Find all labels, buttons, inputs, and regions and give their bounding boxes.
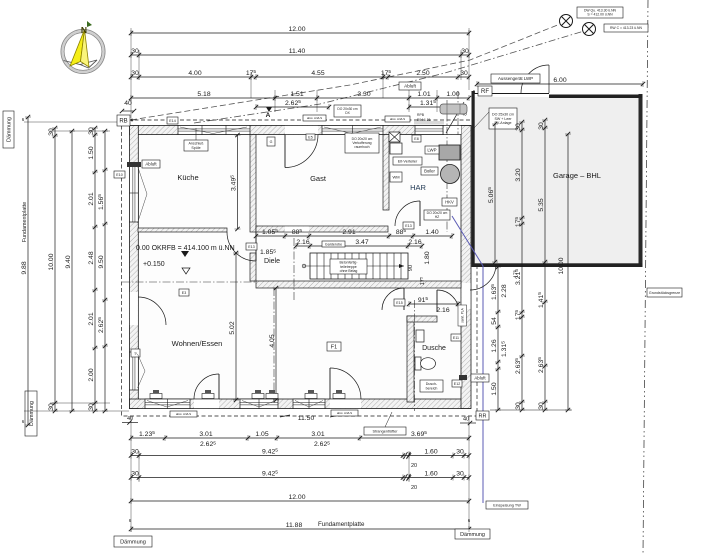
svg-text:Küche: Küche xyxy=(177,173,198,182)
garage wall right xyxy=(639,94,643,267)
label E5 xyxy=(306,134,315,140)
svg-text:30: 30 xyxy=(48,403,55,411)
svg-text:2.16: 2.16 xyxy=(408,239,421,246)
label RF xyxy=(478,86,492,96)
svg-text:30: 30 xyxy=(515,123,522,131)
label Strangentlueftfer xyxy=(364,427,406,435)
window kitchen top xyxy=(178,126,250,135)
svg-text:DX: DX xyxy=(345,111,350,115)
insulation dashed outline xyxy=(122,120,478,416)
dim row 5.18/3.30 xyxy=(129,91,471,101)
svg-text:2.50: 2.50 xyxy=(416,70,429,77)
door Kueche xyxy=(227,232,256,261)
svg-text:1.60: 1.60 xyxy=(424,448,437,455)
svg-text:Dämmung: Dämmung xyxy=(7,117,13,142)
svg-text:Garage – BHL: Garage – BHL xyxy=(553,171,601,180)
dim 10.00 garage xyxy=(565,132,571,412)
svg-text:Einspeisung TW: Einspeisung TW xyxy=(493,503,521,507)
svg-text:Dämmung: Dämmung xyxy=(460,532,485,538)
dim stairs 3.47 xyxy=(294,239,424,249)
svg-text:Wohnen/Essen: Wohnen/Essen xyxy=(172,339,223,348)
dim 10.00 left xyxy=(48,126,58,413)
wall Gast/HAR xyxy=(383,135,389,211)
dim 1.31 xyxy=(407,99,448,110)
svg-text:2.48: 2.48 xyxy=(88,251,95,264)
svg-text:Garderobe: Garderobe xyxy=(325,242,342,246)
door opening bottom 2 xyxy=(330,399,361,408)
door opening house entrance xyxy=(444,126,461,134)
door Dusche xyxy=(437,290,459,312)
label Abluft bath xyxy=(471,374,489,382)
svg-text:0.00 OKRFB = 414.100 m ü.NN: 0.00 OKRFB = 414.100 m ü.NN xyxy=(136,245,235,252)
svg-text:2.01: 2.01 xyxy=(88,312,95,325)
svg-text:Fundamentplatte: Fundamentplatte xyxy=(22,202,28,242)
label Verkofferung xyxy=(345,133,379,153)
label E8 xyxy=(412,135,421,142)
label E13 xyxy=(246,243,257,250)
wall Kueche bottom xyxy=(138,228,227,232)
shaft with X symbol xyxy=(389,132,400,142)
svg-text:+0.150: +0.150 xyxy=(143,261,165,268)
svg-text:20: 20 xyxy=(411,463,417,469)
svg-text:3.01: 3.01 xyxy=(311,431,324,438)
svg-text:E11: E11 xyxy=(453,336,459,340)
svg-text:abst. A/2LS: abst. A/2LS xyxy=(176,412,191,416)
svg-text:30: 30 xyxy=(461,48,469,55)
svg-text:RF: RF xyxy=(481,89,489,95)
svg-text:E12: E12 xyxy=(454,382,460,386)
svg-text:PV-Anlage: PV-Anlage xyxy=(495,121,512,125)
svg-text:30: 30 xyxy=(48,128,55,136)
svg-text:2.28: 2.28 xyxy=(501,284,508,297)
entry sill bar xyxy=(414,121,444,125)
extension lines top xyxy=(131,28,469,118)
svg-text:2.16: 2.16 xyxy=(296,239,309,246)
svg-text:3.47: 3.47 xyxy=(355,239,368,246)
svg-text:S = 412.00 ü.NN: S = 412.00 ü.NN xyxy=(587,13,613,17)
svg-text:1.26: 1.26 xyxy=(491,339,498,352)
svg-text:1.01: 1.01 xyxy=(417,91,430,98)
svg-text:1.51: 1.51 xyxy=(290,91,303,98)
label E12 xyxy=(452,380,462,387)
svg-text:5.35: 5.35 xyxy=(538,198,545,211)
svg-text:RPB: RPB xyxy=(417,113,425,117)
svg-text:2.00: 2.00 xyxy=(88,368,95,381)
svg-text:9: 9 xyxy=(135,351,137,355)
vent fixture right xyxy=(459,375,467,380)
water feed Einspeisung TW line xyxy=(452,216,483,503)
stairs xyxy=(302,253,408,279)
wall below stairs xyxy=(256,281,461,288)
label abst A2LS top2 xyxy=(385,116,410,122)
Abluft roof vent label xyxy=(399,82,421,90)
svg-text:2.01: 2.01 xyxy=(88,192,95,205)
svg-text:Dämmung: Dämmung xyxy=(120,540,146,546)
property boundary Grundstuecksgrenze xyxy=(643,0,648,555)
dim 9.88 fundament left xyxy=(21,115,31,427)
dim chain right wall xyxy=(490,265,501,412)
label abst A2LS bottom2 xyxy=(331,410,358,416)
garage door swing arc xyxy=(521,65,549,93)
label 9 xyxy=(131,349,140,357)
label E15 xyxy=(394,299,405,306)
entrance door leaf xyxy=(446,102,464,133)
label DO 20x30 DX xyxy=(334,105,361,117)
svg-text:E3: E3 xyxy=(182,291,186,295)
svg-text:10.00: 10.00 xyxy=(558,257,565,274)
dim F1 4.05 xyxy=(269,286,279,402)
label E10 xyxy=(114,171,125,178)
baseline right dims xyxy=(490,409,572,411)
svg-text:3.30: 3.30 xyxy=(357,91,370,98)
svg-text:30: 30 xyxy=(538,122,545,130)
label abst A2LS top1 xyxy=(303,115,326,121)
label abst A2LS bottom1 xyxy=(170,411,197,417)
vent fixture left xyxy=(127,162,141,167)
door bottom left terrace xyxy=(194,374,219,399)
svg-text:5.02: 5.02 xyxy=(229,321,236,334)
svg-text:Strangentlüfter: Strangentlüfter xyxy=(373,429,399,433)
svg-text:40: 40 xyxy=(127,416,133,422)
heat pump unit LWP xyxy=(439,145,460,160)
svg-text:30: 30 xyxy=(131,70,139,77)
window bottom 3 xyxy=(293,399,325,409)
window sill fixtures bottom xyxy=(150,394,162,399)
svg-text:Abluft: Abluft xyxy=(404,84,416,89)
label Duschbereich xyxy=(420,380,443,392)
svg-text:E8: E8 xyxy=(414,137,418,141)
svg-text:sanit. PLA: sanit. PLA xyxy=(461,307,465,322)
dim 6.00 garage xyxy=(475,77,645,87)
label Einspeisung TW xyxy=(486,501,528,509)
svg-text:2.91: 2.91 xyxy=(342,229,355,236)
svg-text:40: 40 xyxy=(463,417,469,423)
window kitchen left xyxy=(130,164,139,222)
garage wall bottom xyxy=(472,263,643,267)
wall Diele stub xyxy=(250,253,256,281)
svg-text:20: 20 xyxy=(411,485,417,491)
label sanit PLA xyxy=(458,305,467,326)
dim chain garage mid xyxy=(514,120,525,412)
svg-text:A: A xyxy=(266,112,271,119)
svg-text:Fundamentplatte: Fundamentplatte xyxy=(318,521,365,528)
svg-text:30: 30 xyxy=(456,448,464,455)
svg-text:30: 30 xyxy=(131,448,139,455)
dim 2.62 xyxy=(254,99,331,110)
door F1 xyxy=(382,288,404,310)
label DW Qu levels xyxy=(577,7,623,18)
svg-text:RR: RR xyxy=(479,413,487,419)
svg-text:Diele: Diele xyxy=(264,258,280,265)
dim Dusche 91.5 xyxy=(407,296,460,307)
dim 5.06 garage left xyxy=(487,122,498,264)
svg-text:Dämmung: Dämmung xyxy=(29,401,35,426)
door opening top Gast xyxy=(285,126,318,134)
svg-text:30: 30 xyxy=(515,402,522,410)
window bottom 1 xyxy=(145,399,190,409)
svg-text:E13: E13 xyxy=(248,245,254,249)
svg-text:30: 30 xyxy=(460,70,468,77)
label Garderobe xyxy=(322,241,345,247)
dim chain left inner xyxy=(88,126,98,413)
svg-text:30: 30 xyxy=(456,470,464,477)
insulation layer dashes in walls xyxy=(130,127,470,129)
svg-text:9.88: 9.88 xyxy=(21,261,28,274)
dim row 9.42 a xyxy=(129,448,471,459)
svg-text:11.40: 11.40 xyxy=(289,48,306,55)
svg-text:Aussengerät LWP: Aussengerät LWP xyxy=(498,76,533,81)
door right wall exterior xyxy=(470,264,496,290)
drain line start dot xyxy=(131,119,134,122)
svg-text:6.00: 6.00 xyxy=(553,77,566,84)
label Anschluss Spuele xyxy=(184,140,208,151)
svg-text:abst. A/2LS: abst. A/2LS xyxy=(390,117,405,121)
svg-text:11.88: 11.88 xyxy=(286,522,303,529)
door opening left Wohnen xyxy=(130,292,138,325)
label G xyxy=(267,137,275,146)
svg-text:E15: E15 xyxy=(396,301,402,305)
svg-text:abst. A/2LS: abst. A/2LS xyxy=(307,116,322,120)
svg-text:HZ: HZ xyxy=(435,215,440,219)
svg-text:LWP: LWP xyxy=(427,148,436,153)
svg-text:Gast: Gast xyxy=(310,174,327,183)
svg-text:1.50: 1.50 xyxy=(491,382,498,395)
svg-text:F1: F1 xyxy=(331,344,337,350)
svg-text:G: G xyxy=(270,140,273,144)
svg-text:Dusche: Dusche xyxy=(422,345,446,352)
svg-text:90: 90 xyxy=(408,265,414,271)
manhole DW C xyxy=(583,23,596,36)
svg-text:N: N xyxy=(81,25,87,35)
stairs label xyxy=(330,259,367,274)
door Gast top xyxy=(285,135,318,168)
svg-text:4.05: 4.05 xyxy=(269,334,276,347)
window bottom 2 xyxy=(240,399,278,409)
svg-text:4.00: 4.00 xyxy=(188,70,201,77)
svg-text:Spüle: Spüle xyxy=(191,146,200,150)
svg-text:3.01: 3.01 xyxy=(199,431,212,438)
dim 40 wall thickness top-left xyxy=(120,100,136,113)
dim 12.00 bottom xyxy=(129,494,471,504)
label DO HZ xyxy=(424,210,450,220)
door opening Gast bottom left xyxy=(285,226,309,231)
label HKV xyxy=(442,198,457,206)
label E13 xyxy=(403,222,414,229)
door opening right wall xyxy=(461,283,470,309)
outer wall bottom xyxy=(130,399,471,409)
label RR xyxy=(476,411,489,420)
north compass xyxy=(61,30,105,74)
svg-text:30: 30 xyxy=(131,470,139,477)
svg-text:54: 54 xyxy=(491,317,498,325)
door HAR xyxy=(395,201,420,226)
window opening marks xyxy=(138,127,382,407)
washbasin xyxy=(416,330,424,342)
toilet xyxy=(415,357,436,370)
garage interior fill xyxy=(475,97,639,264)
garage wall top xyxy=(549,95,643,99)
dim 11.88 fundament xyxy=(129,522,471,532)
dim Wohnen 5.02 xyxy=(229,251,239,402)
svg-text:4.55: 4.55 xyxy=(311,70,324,77)
svg-text:1.40: 1.40 xyxy=(425,229,438,236)
label E14 xyxy=(167,117,178,124)
svg-text:12.00: 12.00 xyxy=(288,494,305,501)
door bottom right xyxy=(330,368,361,399)
svg-text:1.50: 1.50 xyxy=(88,146,95,159)
garage wall left xyxy=(472,91,475,267)
room label F1 xyxy=(327,342,341,351)
outer wall left xyxy=(130,126,139,409)
svg-text:bereich: bereich xyxy=(426,386,438,390)
svg-text:RB: RB xyxy=(119,119,127,125)
label Elt-Verteiler xyxy=(393,157,422,165)
extension lines left xyxy=(24,122,129,411)
drain line DW upper xyxy=(131,24,560,120)
svg-text:Elt-Verteiler: Elt-Verteiler xyxy=(398,159,418,163)
svg-text:9.40: 9.40 xyxy=(65,255,72,268)
label Aussengeraet LWP xyxy=(491,74,540,83)
door opening bottom 1 xyxy=(194,399,219,408)
cabinet xyxy=(390,143,402,154)
axis lines xyxy=(122,91,458,411)
svg-text:10.00: 10.00 xyxy=(48,253,55,270)
label LWP xyxy=(425,146,439,154)
svg-text:RW C = 413.23 ü.NN: RW C = 413.23 ü.NN xyxy=(610,26,642,30)
svg-text:30: 30 xyxy=(538,402,545,410)
svg-text:3.20: 3.20 xyxy=(515,168,522,181)
dim Kueche 3.49 xyxy=(230,133,241,231)
label DW C level xyxy=(604,24,648,32)
svg-text:12.00: 12.00 xyxy=(288,26,305,33)
svg-text:1.80: 1.80 xyxy=(424,251,431,264)
svg-text:HKV: HKV xyxy=(445,200,454,205)
dim 9.40 left xyxy=(65,129,75,413)
label DO 25x30 PV xyxy=(489,108,517,129)
dim row Diele xyxy=(254,228,454,239)
washing machine WM xyxy=(390,172,402,182)
extension lines bottom xyxy=(131,416,469,532)
dim row 4.00/4.55/2.50 xyxy=(129,69,471,80)
svg-text:Abluft: Abluft xyxy=(474,376,486,381)
boiler xyxy=(441,165,460,184)
svg-text:Grundstücksgrenze: Grundstücksgrenze xyxy=(649,291,680,295)
svg-text:raumhoch: raumhoch xyxy=(354,145,369,149)
label Grundstuecksgrenze xyxy=(647,288,682,297)
label E11 xyxy=(451,334,461,341)
house interior fill xyxy=(138,135,461,400)
wall Dusche top xyxy=(407,316,437,322)
drain line DW lower xyxy=(194,31,584,123)
label Daemmung left bottom xyxy=(25,391,37,436)
label Abluft kitchen xyxy=(142,160,160,168)
svg-text:E14: E14 xyxy=(169,119,175,123)
dim 11.40 xyxy=(129,48,471,58)
svg-text:30: 30 xyxy=(131,48,139,55)
svg-text:E13: E13 xyxy=(405,224,411,228)
label Boiler xyxy=(421,167,438,175)
svg-text:1.60: 1.60 xyxy=(424,470,437,477)
svg-text:B04 1.31: B04 1.31 xyxy=(417,118,431,122)
svg-text:Boiler: Boiler xyxy=(424,169,435,174)
svg-text:HAR: HAR xyxy=(410,183,426,192)
window Wohnen left xyxy=(130,352,139,390)
dim chain garage mid2 xyxy=(537,118,548,412)
svg-text:11.50: 11.50 xyxy=(298,415,315,422)
dim row bottom openings xyxy=(129,430,471,441)
svg-text:abst. A/2LS: abst. A/2LS xyxy=(337,411,352,415)
label RB xyxy=(117,115,130,126)
svg-text:ohne Belag: ohne Belag xyxy=(340,269,358,273)
wall Gast bottom xyxy=(256,226,388,232)
outer wall top xyxy=(130,126,471,135)
window Gast top xyxy=(322,126,383,135)
svg-text:E5: E5 xyxy=(308,135,312,139)
dim 12.00 top xyxy=(129,26,471,36)
svg-text:WM: WM xyxy=(392,174,399,179)
svg-text:1.05: 1.05 xyxy=(255,431,268,438)
door left wall Wohnen xyxy=(138,297,166,325)
dim row 9.42 b xyxy=(129,470,471,481)
outer wall right xyxy=(461,126,471,409)
window entry top xyxy=(415,126,443,135)
car outline xyxy=(440,104,467,114)
svg-text:9.50: 9.50 xyxy=(98,255,105,268)
svg-text:Abluft: Abluft xyxy=(145,162,157,167)
svg-text:E10: E10 xyxy=(116,173,122,177)
wall F1/Dusche xyxy=(407,316,414,402)
label E3 xyxy=(179,289,189,296)
garage open edge top xyxy=(475,93,550,95)
svg-text:5.18: 5.18 xyxy=(197,91,210,98)
door opening HAR entry xyxy=(395,226,419,231)
label Daemmung bottom right xyxy=(455,529,490,539)
dim chain left inner2 xyxy=(97,129,108,413)
svg-text:30: 30 xyxy=(88,403,95,411)
label Daemmung bottom left xyxy=(114,536,152,547)
svg-text:2.16: 2.16 xyxy=(436,307,449,314)
label Daemmung left top xyxy=(3,111,14,148)
wall Kueche/Gast xyxy=(250,135,256,233)
manhole DW Qu xyxy=(560,15,573,28)
